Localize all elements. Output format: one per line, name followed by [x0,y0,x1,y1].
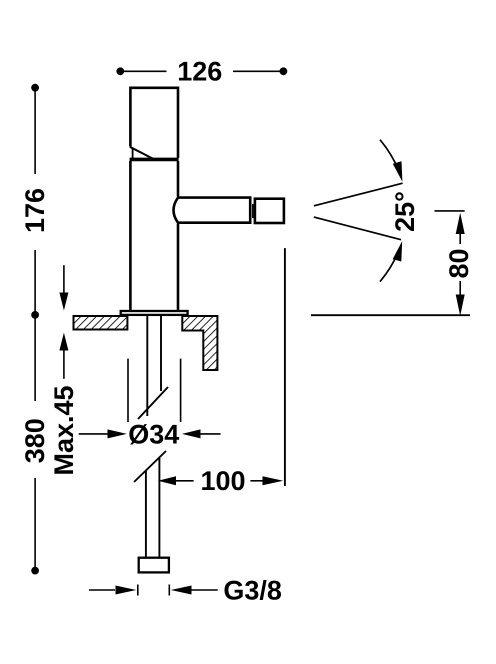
dim100 left shaft [176,480,194,482]
counter slab right L-shape [182,316,217,370]
svg-text:Max.45: Max.45 [49,385,79,475]
dim80 upper shaft [459,233,461,244]
svg-text:80: 80 [444,248,474,278]
spout [174,198,251,223]
jet angle line upper [314,183,403,206]
dim 380 line upper [34,317,36,401]
svg-text:Ø34: Ø34 [128,420,179,450]
dim 176 line upper [34,89,36,174]
dim 126 dot right [280,67,288,75]
angle arc lower [380,250,399,281]
max45 upper arrow line [63,265,65,293]
G38 left arrow [89,589,115,591]
dim 126 line left [122,70,167,72]
supply pipe lower left [145,471,147,557]
dim 176 dot top [31,84,39,92]
svg-text:126: 126 [177,57,222,87]
dia34 left arrow [79,433,108,435]
dim 176 line lower [34,250,36,313]
dia34 ext line left [127,359,129,422]
G38 tick right [168,585,170,596]
dim100 right shaft [250,480,263,482]
jet angle line lower [314,217,401,240]
body right side upper [177,161,180,197]
handle diagonal cut [130,147,153,159]
supply pipe upper left [146,315,148,416]
G38 tick left [137,585,139,596]
dim shared dot [31,311,39,319]
dim80 down arrowhead [456,295,465,316]
dim 126 dot left [116,67,124,75]
body right side lower [177,224,180,310]
max45 lower arrowhead [59,333,68,351]
body left side [129,161,132,310]
angle arc upper arrowhead [393,161,403,182]
dim 126 line right [233,70,282,72]
svg-text:176: 176 [20,188,50,233]
dia34 right arrow [182,429,201,438]
handle notch line [132,149,134,159]
svg-text:380: 380 [20,418,50,463]
svg-text:100: 100 [200,466,245,496]
dim100 right arrowhead [263,476,284,485]
supply pipe lower right [158,458,160,557]
ext line right of pipe [284,248,286,486]
aerator [255,199,284,223]
base flange [121,311,188,315]
G38 right shaft [191,589,218,591]
max45 upper arrowhead [59,293,68,311]
pipe break line lower [134,451,166,482]
max45 lower arrow line [63,350,65,379]
counter slab left [74,316,128,330]
G38 right arrowhead [171,586,192,595]
supply pipe upper right [160,315,162,391]
dim 380 dot bottom [31,567,39,575]
connector nut [139,558,169,573]
dim 380 line lower [34,478,36,568]
cartridge cap thick line [130,158,179,162]
handle lever [130,88,178,158]
pipe break line upper [138,387,168,419]
dim80 up arrowhead [456,213,465,234]
deck level line right [311,314,470,316]
svg-text:G3/8: G3/8 [223,575,282,605]
svg-text:25°: 25° [390,191,420,232]
angle arc upper [380,140,399,171]
dim100 left arrowhead [158,476,176,485]
spout neck line [252,204,254,218]
dim80 top tick [435,210,465,212]
angle arc lower arrowhead [393,241,403,262]
dia34 ext line right [180,359,182,422]
dim80 lower shaft [459,281,461,295]
